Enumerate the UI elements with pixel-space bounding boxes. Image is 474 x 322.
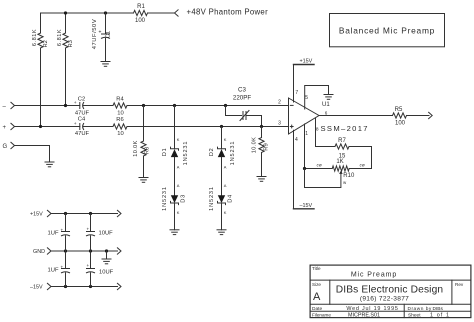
- svg-text:U1: U1: [322, 102, 330, 108]
- svg-text:C4: C4: [78, 116, 86, 122]
- svg-text:1N5231: 1N5231: [209, 186, 215, 211]
- svg-text:+: +: [74, 101, 77, 106]
- svg-text:R4: R4: [116, 97, 124, 103]
- svg-text:+15V: +15V: [300, 59, 313, 65]
- svg-text:+: +: [61, 228, 64, 233]
- svg-text:47UF/50V: 47UF/50V: [92, 19, 98, 50]
- svg-text:+: +: [74, 122, 77, 127]
- svg-text:10UF: 10UF: [99, 231, 114, 237]
- svg-text:K: K: [224, 210, 227, 215]
- svg-text:Title: Title: [312, 266, 321, 271]
- svg-text:1N5231: 1N5231: [183, 141, 189, 166]
- svg-text:1UF: 1UF: [48, 268, 59, 274]
- svg-text:R7: R7: [338, 138, 346, 144]
- svg-text:Date: Date: [312, 306, 322, 312]
- svg-text:R2: R2: [43, 40, 49, 47]
- svg-text:10.0K: 10.0K: [133, 140, 139, 156]
- svg-text:5: 5: [305, 95, 308, 101]
- svg-text:SSM–2017: SSM–2017: [321, 124, 369, 133]
- svg-text:1N5231: 1N5231: [162, 186, 168, 211]
- svg-text:1K: 1K: [336, 159, 343, 165]
- svg-text:Sheet: Sheet: [408, 313, 421, 319]
- svg-text:D3: D3: [181, 194, 187, 202]
- svg-text:R1: R1: [137, 4, 145, 10]
- svg-text:R5: R5: [395, 107, 403, 113]
- svg-text:A: A: [177, 164, 180, 169]
- svg-text:6: 6: [325, 110, 328, 115]
- svg-text:C2: C2: [78, 97, 85, 103]
- svg-text:1UF: 1UF: [48, 231, 59, 237]
- svg-text:7: 7: [295, 90, 298, 96]
- svg-text:6.81K: 6.81K: [32, 29, 38, 46]
- svg-text:R3: R3: [68, 40, 74, 47]
- svg-text:3: 3: [278, 121, 281, 127]
- svg-text:DIBs Electronic Design: DIBs Electronic Design: [336, 284, 443, 295]
- svg-text:1: 1: [305, 131, 308, 137]
- svg-text:C1: C1: [106, 31, 112, 38]
- svg-text:D2: D2: [209, 148, 215, 156]
- svg-text:D1: D1: [162, 148, 168, 156]
- svg-text:GND: GND: [33, 249, 45, 255]
- svg-text:G: G: [3, 144, 8, 150]
- svg-text:MICPRE.S01: MICPRE.S01: [348, 313, 380, 319]
- svg-text:R10: R10: [343, 173, 355, 179]
- svg-text:220PF: 220PF: [233, 95, 251, 102]
- svg-text:Wed Jul 19 1995: Wed Jul 19 1995: [346, 306, 398, 312]
- svg-text:K: K: [177, 210, 180, 215]
- svg-text:6.81K: 6.81K: [57, 29, 63, 46]
- svg-text:10UF: 10UF: [99, 269, 114, 275]
- svg-text:D4: D4: [228, 194, 234, 203]
- svg-text:+: +: [87, 263, 90, 268]
- svg-text:A: A: [313, 291, 321, 303]
- svg-text:+: +: [99, 30, 102, 36]
- svg-text:100: 100: [395, 121, 406, 127]
- svg-text:R8: R8: [145, 147, 151, 154]
- svg-text:Rev: Rev: [455, 282, 464, 287]
- svg-text:2: 2: [278, 100, 281, 106]
- svg-text:10: 10: [117, 131, 123, 137]
- svg-text:47UF: 47UF: [75, 110, 90, 116]
- svg-text:Size: Size: [312, 282, 321, 287]
- svg-text:R6: R6: [116, 117, 123, 123]
- svg-text:8: 8: [316, 126, 319, 132]
- svg-text:C3: C3: [238, 87, 246, 94]
- svg-text:Balanced Mic Preamp: Balanced Mic Preamp: [339, 26, 435, 36]
- svg-text:10.0K: 10.0K: [251, 137, 257, 153]
- svg-text:DIBs: DIBs: [433, 306, 444, 312]
- svg-text:Drawn by: Drawn by: [408, 306, 432, 312]
- svg-text:(916) 722-3877: (916) 722-3877: [360, 296, 409, 303]
- svg-text:Mic Preamp: Mic Preamp: [351, 272, 397, 279]
- svg-text:+48V Phantom Power: +48V Phantom Power: [187, 8, 269, 17]
- svg-text:+15V: +15V: [30, 212, 43, 218]
- svg-text:–15V: –15V: [300, 203, 313, 209]
- svg-text:–15V: –15V: [30, 285, 43, 291]
- svg-text:100: 100: [135, 18, 146, 24]
- svg-text:47UF: 47UF: [75, 131, 90, 137]
- svg-text:K: K: [177, 137, 180, 142]
- svg-text:A: A: [224, 183, 227, 188]
- svg-text:+: +: [61, 265, 64, 270]
- svg-text:K: K: [224, 137, 227, 142]
- svg-text:10: 10: [117, 110, 123, 116]
- svg-text:R9: R9: [263, 143, 269, 150]
- svg-text:4: 4: [295, 137, 298, 143]
- svg-text:1 of 1: 1 of 1: [430, 313, 450, 319]
- svg-text:+: +: [3, 125, 7, 131]
- svg-text:A: A: [224, 164, 227, 169]
- svg-text:Filename: Filename: [312, 313, 331, 318]
- svg-text:1N5231: 1N5231: [230, 141, 236, 166]
- svg-text:A: A: [177, 183, 180, 188]
- svg-text:+: +: [87, 227, 90, 232]
